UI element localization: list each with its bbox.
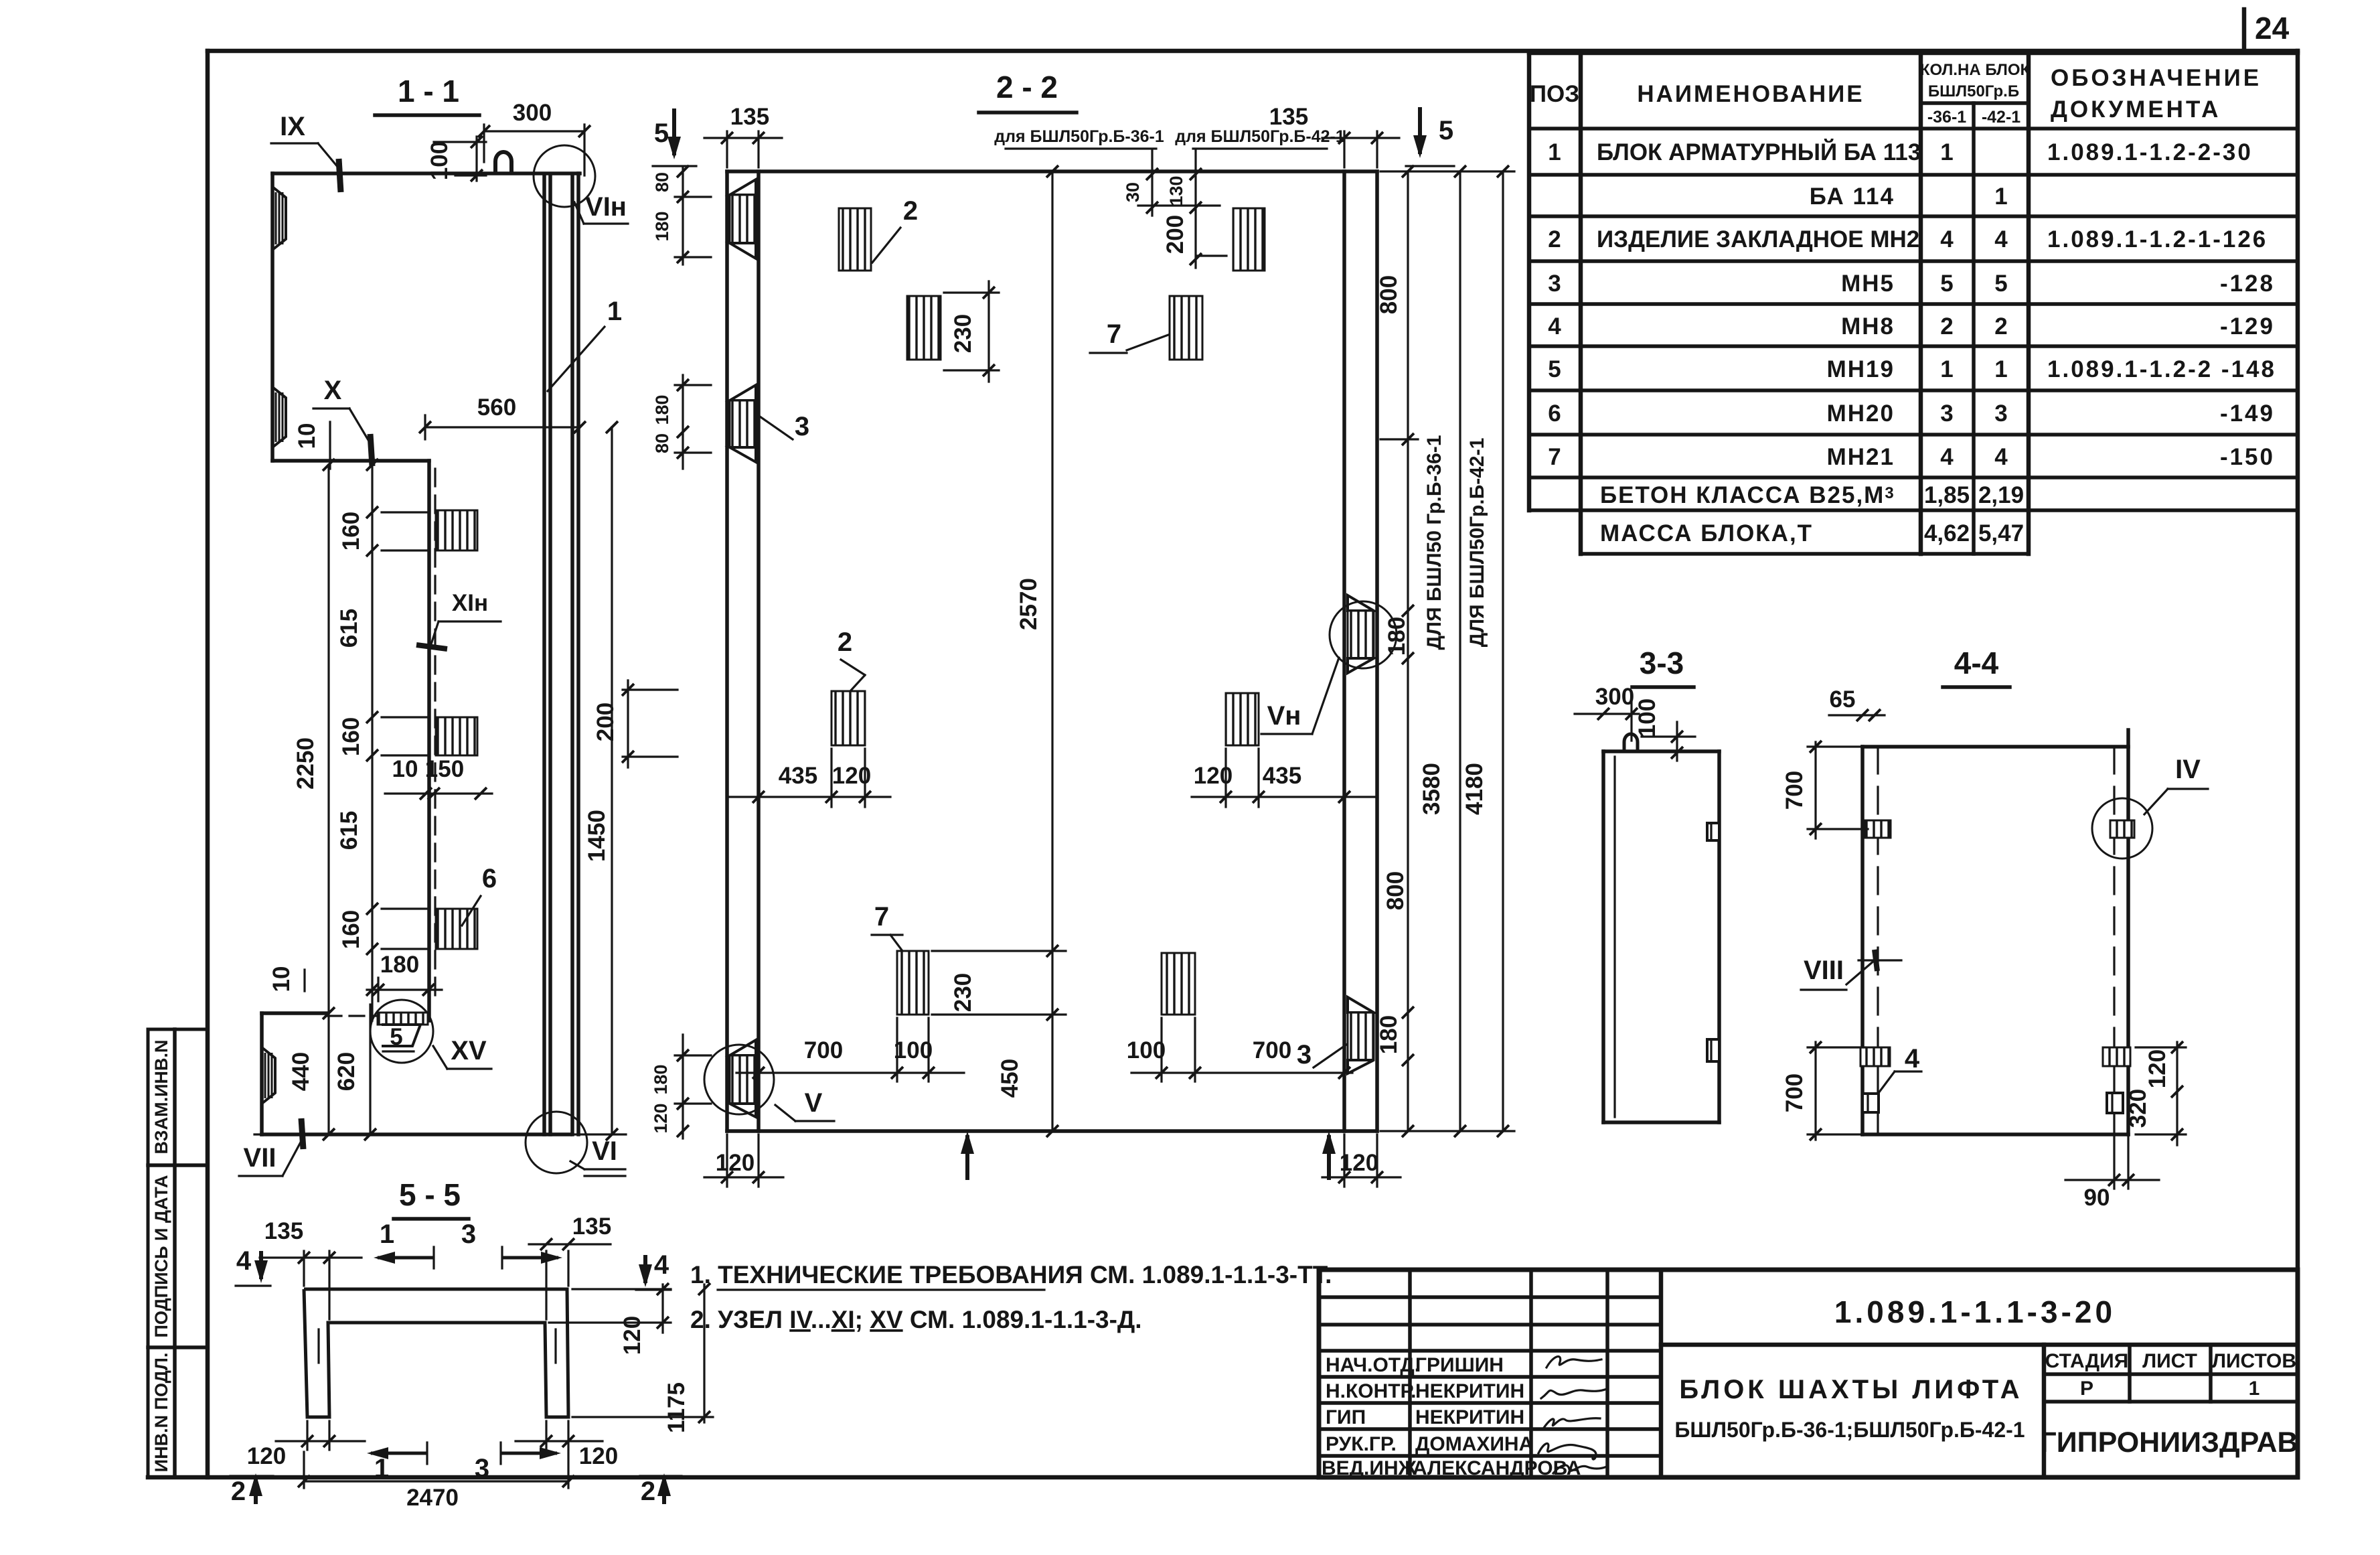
svg-text:4: 4 (1940, 226, 1954, 252)
svg-text:1450: 1450 (584, 810, 610, 862)
node XV circle and packing plate 5 (370, 1000, 433, 1063)
embedded plate row2 right (1170, 296, 1202, 360)
title block (1319, 1270, 2298, 1479)
parts table row texts (1548, 139, 2276, 546)
svg-text:V: V (805, 1088, 823, 1118)
svg-text:НЕКРИТИН: НЕКРИТИН (1415, 1380, 1524, 1402)
svg-text:1.089.1-1.1-3-20: 1.089.1-1.1-3-20 (1834, 1294, 2116, 1329)
svg-text:ЛИСТОВ: ЛИСТОВ (2212, 1350, 2296, 1372)
svg-text:120: 120 (247, 1443, 286, 1469)
dim 700 upper left (1814, 742, 1816, 838)
svg-text:4: 4 (1994, 444, 2008, 470)
svg-text:Vн: Vн (1267, 701, 1301, 731)
dim 300 (484, 130, 584, 132)
svg-text:230: 230 (950, 973, 976, 1012)
svg-text:120: 120 (2144, 1049, 2170, 1088)
svg-text:РУК.ГР.: РУК.ГР. (1326, 1433, 1397, 1455)
svg-text:1: 1 (1548, 139, 1561, 165)
svg-text:3: 3 (1940, 400, 1953, 427)
svg-text:VIII: VIII (1804, 956, 1844, 985)
svg-text:6: 6 (482, 864, 497, 893)
svg-text:160: 160 (338, 717, 364, 756)
svg-text:1: 1 (607, 297, 622, 326)
svg-text:ИЗДЕЛИЕ ЗАКЛАДНОЕ МН2: ИЗДЕЛИЕ ЗАКЛАДНОЕ МН2 (1597, 226, 1919, 252)
embedded plate mid right (1226, 693, 1259, 745)
svg-text:IV: IV (2175, 755, 2201, 784)
svg-text:800: 800 (1376, 275, 1402, 314)
right anchor plate upper (2103, 1047, 2130, 1066)
svg-text:ДОМАХИНА: ДОМАХИНА (1415, 1433, 1533, 1455)
svg-text:2: 2 (838, 627, 852, 657)
svg-text:2 - 2: 2 - 2 (996, 70, 1058, 104)
svg-text:100: 100 (1634, 698, 1660, 737)
svg-text:VI: VI (592, 1136, 617, 1166)
svg-text:МАССА БЛОКА,Т: МАССА БЛОКА,Т (1600, 520, 1813, 546)
svg-text:7: 7 (1107, 319, 1121, 349)
embedded plate low right (1162, 953, 1195, 1015)
svg-text:5: 5 (390, 1024, 402, 1050)
anchor plate in node IV (2110, 820, 2134, 838)
node IV circle (2092, 798, 2152, 859)
right small plate lower (2107, 1093, 2123, 1113)
svg-text:ВЗАМ.ИНВ.N: ВЗАМ.ИНВ.N (151, 1040, 171, 1155)
svg-text:ИНВ.N ПОДЛ.: ИНВ.N ПОДЛ. (151, 1353, 171, 1473)
svg-text:4180: 4180 (1461, 763, 1488, 815)
svg-text:-129: -129 (2220, 313, 2275, 340)
svg-text:2250: 2250 (293, 737, 319, 790)
svg-text:1. ТЕХНИЧЕСКИЕ ТРЕБОВАНИЯ СМ.: 1. ТЕХНИЧЕСКИЕ ТРЕБОВАНИЯ СМ. 1.089.1-1.… (690, 1261, 1332, 1288)
dim 4180 (1502, 171, 1504, 1131)
svg-text:5,47: 5,47 (1978, 520, 2024, 546)
svg-text:4: 4 (654, 1250, 669, 1280)
svg-text:IX: IX (280, 112, 305, 141)
svg-text:130: 130 (1166, 175, 1186, 206)
svg-text:ЛИСТ: ЛИСТ (2142, 1350, 2197, 1372)
embedded plate mid left (831, 691, 865, 745)
notes (690, 1261, 1332, 1333)
svg-text:3: 3 (1994, 400, 2007, 427)
svg-text:ДОКУМЕНТА: ДОКУМЕНТА (2051, 96, 2221, 123)
svg-text:135: 135 (1269, 104, 1308, 130)
dims 320 120 right (2176, 1042, 2178, 1145)
right edge joint strip (node Vn) (1348, 595, 1374, 611)
svg-text:100: 100 (426, 141, 453, 180)
svg-text:2: 2 (1994, 313, 2007, 340)
section 4-4 view (1781, 646, 2208, 1211)
dashed axis right (2113, 747, 2115, 1134)
svg-text:5: 5 (1994, 271, 2007, 297)
svg-text:80: 80 (652, 433, 672, 453)
svg-text:БЕТОН КЛАССА В25,М3: БЕТОН КЛАССА В25,М3 (1600, 482, 1895, 508)
svg-text:для БШЛ50Гр.Б-42-1: для БШЛ50Гр.Б-42-1 (1175, 127, 1345, 146)
svg-text:МН20: МН20 (1827, 400, 1895, 427)
svg-text:1: 1 (1994, 356, 2007, 382)
svg-text:180: 180 (1384, 617, 1410, 656)
svg-text:3580: 3580 (1419, 763, 1445, 815)
left edge joint strip bottom (node V) (730, 1040, 756, 1055)
dim 230 top (944, 291, 999, 293)
section 3-3 view (1575, 646, 1719, 1122)
svg-text:450: 450 (997, 1059, 1023, 1098)
svg-text:ПОДПИСЬ И ДАТА: ПОДПИСЬ И ДАТА (151, 1175, 171, 1337)
leg insert mark left (317, 1329, 319, 1363)
svg-text:БЛОК АРМАТУРНЫЙ БА 113: БЛОК АРМАТУРНЫЙ БА 113 (1597, 139, 1921, 165)
left edge joint strip 3 (730, 385, 756, 400)
svg-text:150: 150 (425, 756, 464, 782)
svg-text:300: 300 (513, 100, 552, 126)
svg-text:120: 120 (579, 1443, 618, 1469)
svg-text:30: 30 (1123, 182, 1143, 202)
svg-text:700: 700 (1781, 1073, 1808, 1112)
svg-text:100: 100 (1127, 1037, 1166, 1063)
svg-text:560: 560 (477, 394, 516, 421)
svg-text:2: 2 (1548, 226, 1561, 252)
svg-text:ОБОЗНАЧЕНИЕ: ОБОЗНАЧЕНИЕ (2051, 65, 2262, 91)
svg-text:Н.КОНТР.: Н.КОНТР. (1326, 1380, 1416, 1402)
svg-text:3: 3 (1297, 1040, 1312, 1069)
svg-text:180: 180 (652, 211, 672, 241)
svg-text:2,19: 2,19 (1978, 482, 2024, 508)
svg-text:120: 120 (716, 1150, 755, 1176)
svg-text:1: 1 (1940, 139, 1953, 165)
dim 120 bottom right (1343, 1134, 1345, 1187)
svg-text:ГРИШИН: ГРИШИН (1415, 1354, 1504, 1376)
node V circle (704, 1045, 774, 1114)
block outline (1862, 745, 2128, 749)
panel outline (727, 169, 1377, 173)
embedded plate 2 top left (839, 208, 871, 271)
svg-text:-36-1: -36-1 (1927, 108, 1966, 127)
svg-text:1: 1 (1940, 356, 1953, 382)
svg-text:120: 120 (651, 1103, 671, 1133)
svg-text:200: 200 (592, 702, 619, 741)
svg-text:10: 10 (392, 756, 418, 782)
block outline (1603, 749, 1719, 753)
svg-text:2570: 2570 (1016, 578, 1042, 630)
dim 700 lower left (1814, 1042, 1816, 1140)
inner wall line (1613, 757, 1615, 1117)
svg-text:ГИП: ГИП (1326, 1406, 1366, 1428)
svg-text:1.089.1-1.2-2-30: 1.089.1-1.2-2-30 (2047, 139, 2253, 165)
section 1-1 view (239, 74, 628, 1176)
svg-text:ПОЗ: ПОЗ (1530, 81, 1579, 107)
right dim chain 800 180 800 180 (1407, 171, 1409, 1131)
svg-text:ДЛЯ БШЛ50Гр.Б-42-1: ДЛЯ БШЛ50Гр.Б-42-1 (1466, 438, 1488, 648)
svg-text:Р: Р (2080, 1378, 2093, 1400)
svg-text:1.089.1-1.2-1-126: 1.089.1-1.2-1-126 (2047, 226, 2268, 252)
svg-text:БШЛ50Гр.Б-36-1;БШЛ50Гр.Б-42-1: БШЛ50Гр.Б-36-1;БШЛ50Гр.Б-42-1 (1674, 1418, 2025, 1442)
svg-text:160: 160 (338, 910, 364, 949)
svg-text:4: 4 (1994, 226, 2008, 252)
embedded plate top right (1233, 208, 1265, 271)
dim 1450 (611, 427, 613, 1134)
svg-text:ДЛЯ БШЛ50 Гр.Б-36-1: ДЛЯ БШЛ50 Гр.Б-36-1 (1423, 435, 1445, 650)
svg-text:СТАДИЯ: СТАДИЯ (2045, 1350, 2129, 1372)
svg-text:5: 5 (654, 119, 669, 148)
svg-text:1: 1 (1994, 183, 2007, 210)
dim 200 left (623, 688, 678, 690)
groove joint top on left edge (272, 187, 286, 250)
svg-text:120: 120 (1340, 1150, 1378, 1176)
svg-text:XV: XV (451, 1036, 487, 1065)
svg-text:ГИПРОНИИЗДРАВ: ГИПРОНИИЗДРАВ (2040, 1426, 2298, 1459)
svg-text:1 - 1: 1 - 1 (398, 74, 459, 108)
svg-text:180: 180 (380, 952, 419, 978)
svg-text:160: 160 (338, 512, 364, 550)
svg-text:XIн: XIн (452, 590, 488, 616)
svg-text:700: 700 (804, 1037, 843, 1063)
svg-text:НАИМЕНОВАНИЕ: НАИМЕНОВАНИЕ (1637, 81, 1864, 107)
svg-text:5: 5 (1548, 356, 1561, 382)
svg-text:180: 180 (1376, 1015, 1402, 1054)
svg-text:1.089.1-1.2-2 -148: 1.089.1-1.2-2 -148 (2047, 356, 2276, 382)
dim 120 bottom left (726, 1134, 728, 1187)
foot outline (262, 1011, 327, 1015)
dim 3580 (1459, 171, 1461, 1131)
svg-text:1175: 1175 (663, 1382, 690, 1433)
svg-text:МН5: МН5 (1841, 271, 1895, 297)
svg-text:для БШЛ50Гр.Б-36-1: для БШЛ50Гр.Б-36-1 (994, 127, 1164, 146)
svg-text:-150: -150 (2220, 444, 2275, 470)
svg-text:МН8: МН8 (1841, 313, 1895, 340)
svg-text:VII: VII (244, 1143, 276, 1173)
dim chain 2250 440 (327, 465, 329, 1134)
svg-text:135: 135 (264, 1218, 303, 1244)
svg-text:135: 135 (572, 1213, 611, 1240)
left anchor plate upper (1865, 820, 1891, 838)
panel web left edge (427, 461, 431, 1021)
svg-text:24: 24 (2255, 11, 2290, 46)
left anchor plate lower (1860, 1047, 1890, 1066)
svg-text:БШЛ50Гр.Б: БШЛ50Гр.Б (1928, 82, 2019, 100)
embedded plate row2 left (907, 296, 941, 360)
svg-text:435: 435 (1263, 763, 1301, 789)
svg-text:615: 615 (336, 609, 362, 648)
svg-text:80: 80 (652, 172, 672, 192)
svg-text:620: 620 (333, 1052, 360, 1091)
left dim chain 180 80 lower (682, 375, 684, 469)
node VI circle (526, 1112, 587, 1173)
side tab upper (1707, 823, 1719, 840)
dim 100 (rotated) (434, 141, 486, 143)
svg-text:6: 6 (1548, 400, 1561, 427)
svg-text:1: 1 (2249, 1378, 2260, 1400)
panel left edge (270, 173, 274, 461)
lifting loop (1624, 734, 1638, 751)
dashed axis left (1877, 747, 1879, 1134)
left dim chain 80 180 top (682, 167, 684, 265)
left edge joint strip top (730, 179, 756, 195)
svg-text:320: 320 (2125, 1089, 2151, 1128)
dim 620 (369, 1005, 371, 1134)
groove joint on foot (262, 1047, 275, 1104)
svg-text:4-4: 4-4 (1954, 646, 1999, 680)
panel bottom step edge (272, 459, 429, 463)
svg-text:180: 180 (652, 394, 672, 425)
hidden line of web (434, 469, 436, 1001)
svg-text:3-3: 3-3 (1640, 646, 1684, 680)
channel outline (304, 1289, 568, 1417)
center dim chain 2570 230 450 (1051, 171, 1053, 1131)
svg-text:135: 135 (730, 104, 769, 130)
embedded plate low left (897, 951, 929, 1015)
svg-text:-42-1: -42-1 (1982, 108, 2020, 127)
inner wall lines (element 1) (542, 175, 546, 1134)
svg-text:440: 440 (288, 1052, 314, 1091)
svg-text:3: 3 (795, 412, 809, 441)
svg-text:АЛЕКСАНДРОВА: АЛЕКСАНДРОВА (1413, 1457, 1581, 1479)
svg-text:3: 3 (475, 1454, 489, 1483)
svg-text:МН19: МН19 (1827, 356, 1895, 382)
section 5-5 view (230, 1177, 713, 1511)
svg-text:2: 2 (231, 1477, 246, 1506)
svg-text:5: 5 (1940, 271, 1953, 297)
svg-text:4: 4 (1940, 444, 1954, 470)
svg-text:7: 7 (874, 902, 889, 932)
dim 560 (425, 426, 580, 428)
svg-text:2: 2 (641, 1477, 655, 1506)
inventory side bar (148, 1029, 208, 1477)
panel top edge (272, 171, 580, 175)
svg-text:700: 700 (1781, 771, 1808, 810)
svg-text:3: 3 (461, 1219, 476, 1249)
svg-text:300: 300 (1595, 684, 1634, 710)
svg-text:2. УЗЕЛ IV...XI; XV СМ. 1.089.: 2. УЗЕЛ IV...XI; XV СМ. 1.089.1-1.1-3-Д. (690, 1306, 1142, 1333)
svg-text:100: 100 (894, 1037, 933, 1063)
top middle small dims 30 130 200 (1151, 151, 1153, 216)
svg-text:90: 90 (2084, 1185, 2110, 1211)
svg-text:X: X (324, 376, 342, 405)
svg-text:1,85: 1,85 (1924, 482, 1970, 508)
svg-text:10: 10 (294, 423, 320, 449)
small lower plate left (1862, 1094, 1879, 1112)
svg-text:1: 1 (380, 1219, 394, 1249)
node VIn circle (534, 145, 595, 207)
embedded plate MH 6 (bottom) (436, 909, 477, 949)
svg-text:2: 2 (1940, 313, 1953, 340)
section 2-2 view (592, 70, 1514, 1187)
dim 90 bottom (2065, 1179, 2159, 1181)
svg-text:НЕКРИТИН: НЕКРИТИН (1415, 1406, 1524, 1428)
svg-text:200: 200 (1162, 215, 1188, 254)
svg-text:5: 5 (1439, 116, 1453, 145)
svg-text:435: 435 (779, 763, 817, 789)
svg-text:-149: -149 (2220, 400, 2275, 427)
svg-text:230: 230 (950, 314, 976, 353)
svg-text:БА 114: БА 114 (1810, 183, 1895, 210)
svg-text:180: 180 (651, 1064, 671, 1094)
svg-text:7: 7 (1548, 444, 1561, 470)
cut arrows bottom (965, 1135, 969, 1180)
svg-text:4,62: 4,62 (1924, 520, 1970, 546)
svg-text:4: 4 (1905, 1044, 1920, 1073)
page number 24 (2244, 9, 2290, 50)
parts table (1529, 53, 2298, 554)
svg-text:700: 700 (1253, 1037, 1291, 1063)
svg-text:10: 10 (268, 966, 295, 992)
svg-text:БЛОК ШАХТЫ ЛИФТА: БЛОК ШАХТЫ ЛИФТА (1679, 1375, 2022, 1404)
groove joint bottom on left edge (272, 387, 286, 447)
svg-text:5 - 5: 5 - 5 (399, 1177, 461, 1212)
svg-text:65: 65 (1830, 686, 1856, 713)
right edge joint strip 3 (1348, 997, 1374, 1013)
svg-text:800: 800 (1382, 871, 1409, 910)
svg-text:МН21: МН21 (1827, 444, 1895, 470)
svg-text:4: 4 (236, 1246, 252, 1276)
embedded plate MH (top) (436, 510, 477, 550)
node Vn circle (1330, 601, 1397, 668)
svg-text:2470: 2470 (406, 1485, 459, 1511)
svg-text:-128: -128 (2220, 271, 2275, 297)
plate spacing dim chain (371, 465, 373, 1021)
svg-text:НАЧ.ОТД.: НАЧ.ОТД. (1326, 1354, 1420, 1376)
svg-text:4: 4 (1548, 313, 1561, 340)
lifting loop (495, 152, 511, 173)
svg-text:КОЛ.НА БЛОК: КОЛ.НА БЛОК (1920, 61, 2031, 79)
svg-text:615: 615 (336, 811, 362, 850)
svg-text:ВЕД.ИНЖ: ВЕД.ИНЖ (1322, 1457, 1417, 1479)
svg-text:2: 2 (903, 196, 918, 226)
leg insert mark right (554, 1329, 556, 1363)
embedded plate MH (middle) (436, 717, 477, 755)
side tab lower (1707, 1039, 1719, 1061)
dim chain 180 120 bottom left of 2-2 (651, 1035, 711, 1138)
svg-text:VIн: VIн (585, 192, 627, 222)
svg-text:3: 3 (1548, 271, 1561, 297)
